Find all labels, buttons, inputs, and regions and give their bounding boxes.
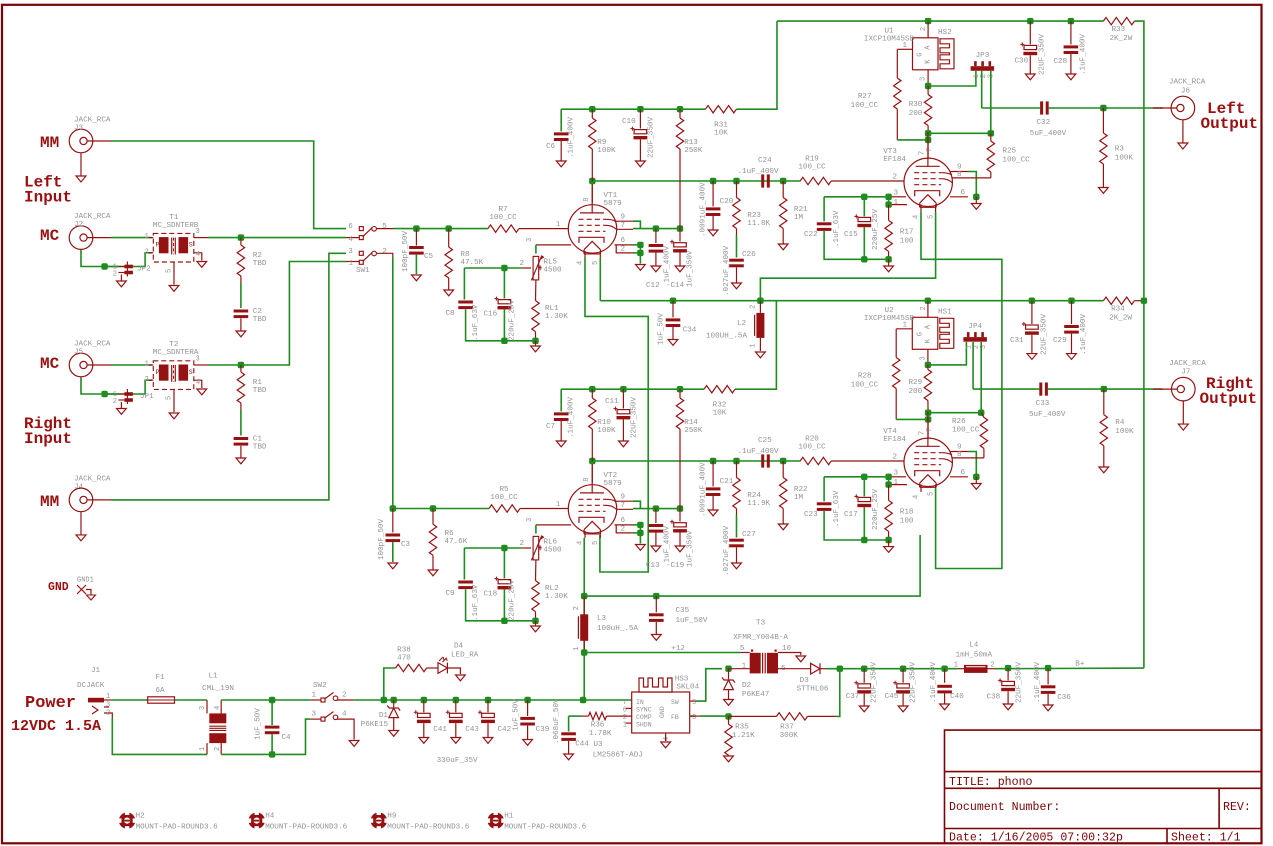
svg-text:5: 5 xyxy=(166,269,174,273)
capacitor C29 xyxy=(1064,325,1079,328)
C13 lead xyxy=(655,509,657,523)
U3 gnd lead xyxy=(665,733,667,741)
svg-text:5: 5 xyxy=(166,396,174,400)
junction C30 top xyxy=(1027,18,1033,24)
svg-text:R31: R31 xyxy=(714,122,728,130)
wire plate node row 2 xyxy=(592,460,800,462)
svg-text:R26: R26 xyxy=(952,418,966,426)
tube VT2 xyxy=(568,485,616,533)
svg-text:7: 7 xyxy=(919,431,927,436)
resistor R5 xyxy=(489,505,520,512)
ground below C13 xyxy=(655,533,657,546)
svg-text:MOUNT-PAD-ROUND3.6: MOUNT-PAD-ROUND3.6 xyxy=(387,824,469,832)
C42 lead xyxy=(487,700,489,712)
wire JP3-2 down xyxy=(981,71,983,108)
wire B+ row xyxy=(995,667,1144,670)
RL2 top lead xyxy=(535,560,537,581)
ground below C14 xyxy=(679,252,681,266)
svg-text:C42: C42 xyxy=(498,726,512,734)
ground T1 pin5 xyxy=(169,286,179,292)
capacitor C27 xyxy=(729,539,744,542)
svg-text:R5: R5 xyxy=(499,486,509,494)
svg-text:R4: R4 xyxy=(1115,419,1125,427)
resistor R2 xyxy=(237,245,244,276)
junction cluster bottom xyxy=(501,338,507,344)
D3 out lead xyxy=(820,668,826,670)
junction R4 top xyxy=(1101,386,1107,392)
svg-text:.1uF_400V: .1uF_400V xyxy=(1079,34,1087,75)
resistor R1 xyxy=(237,372,244,403)
R18 bottom lead xyxy=(888,531,890,540)
connector J3 xyxy=(69,129,93,153)
U1 pin3 lead xyxy=(927,70,929,86)
svg-text:.1uF_400V: .1uF_400V xyxy=(568,397,576,438)
resistor R36 xyxy=(589,712,607,719)
svg-text:R33: R33 xyxy=(1112,26,1126,34)
junction C14 top xyxy=(677,225,683,231)
svg-text:C6: C6 xyxy=(546,143,556,151)
junction R25 top xyxy=(988,130,994,136)
svg-text:EF184: EF184 xyxy=(883,156,906,164)
svg-text:R17: R17 xyxy=(900,229,914,237)
wire L3 bottom to rail xyxy=(583,653,585,701)
svg-text:22UF_350V: 22UF_350V xyxy=(648,117,656,158)
SW1 pin2 lead xyxy=(377,253,393,258)
svg-text:.1uF_400V: .1uF_400V xyxy=(1034,662,1042,703)
svg-text:HS2: HS2 xyxy=(938,29,952,37)
wire C18 leg xyxy=(503,548,505,579)
capacitor C44 xyxy=(561,732,576,735)
junction C15 top xyxy=(861,194,867,200)
capacitor C21 xyxy=(706,487,721,490)
svg-text:100K: 100K xyxy=(597,147,616,155)
wire pin9 to pin7 row 2 xyxy=(633,501,640,508)
svg-text:1.21K: 1.21K xyxy=(732,732,755,740)
svg-text:1: 1 xyxy=(145,360,149,368)
capacitor C36 xyxy=(1041,685,1056,688)
svg-text:10K: 10K xyxy=(713,410,727,418)
wire C7 leg xyxy=(560,389,562,411)
svg-text:2K_2W: 2K_2W xyxy=(1109,315,1132,323)
R6 lead xyxy=(432,509,434,525)
ground below R6 xyxy=(432,555,434,570)
regulator U3 xyxy=(632,692,690,733)
wire MM-right to SW1 pin3 xyxy=(111,253,346,500)
title block xyxy=(945,730,1262,844)
svg-text:C36: C36 xyxy=(1057,694,1071,702)
svg-text:Sheet: 1/1: Sheet: 1/1 xyxy=(1171,832,1241,845)
svg-text:F1: F1 xyxy=(155,674,165,682)
svg-text:9: 9 xyxy=(621,494,626,502)
svg-text:1.78K: 1.78K xyxy=(589,730,612,738)
svg-text:J2: J2 xyxy=(74,221,84,229)
junction C36 xyxy=(1045,665,1051,671)
svg-text:100: 100 xyxy=(900,238,914,246)
svg-text:7: 7 xyxy=(621,222,626,230)
R10 bottom lead xyxy=(591,429,593,461)
wire VT3 pin4 heater to VT4 pin5 xyxy=(921,212,1002,569)
wire T1 out to SW1 pin4 xyxy=(208,237,346,239)
svg-text:JACK_RCA: JACK_RCA xyxy=(74,475,111,483)
wire to C44 xyxy=(568,716,570,731)
svg-text:2: 2 xyxy=(145,376,149,384)
svg-text:H9: H9 xyxy=(387,813,397,821)
resistor R25 xyxy=(987,141,994,172)
ground below D2 xyxy=(728,690,730,700)
svg-text:22UF_350V: 22UF_350V xyxy=(910,662,918,703)
wire B+ rail VT2 xyxy=(561,388,704,390)
svg-text:MM: MM xyxy=(40,493,59,511)
svg-text:GND: GND xyxy=(48,581,69,594)
resistor R34 xyxy=(1103,297,1134,304)
tube VT3 xyxy=(904,158,952,206)
ground below C40 xyxy=(944,693,946,704)
ground below C42 xyxy=(487,723,489,737)
wire C18 bottom xyxy=(503,590,505,621)
svg-text:250K: 250K xyxy=(684,147,703,155)
ground below C34 xyxy=(672,327,674,340)
svg-text:C33: C33 xyxy=(1036,400,1050,408)
C3 gnd lead xyxy=(392,542,394,562)
wire VT1 pin4 heater chain to VT2 pin5 xyxy=(585,258,648,572)
svg-text:C35: C35 xyxy=(676,607,690,615)
T1 pin leads xyxy=(149,237,154,239)
ground below VT4 cluster xyxy=(888,540,890,547)
ground below C26 xyxy=(736,267,738,283)
svg-text:3: 3 xyxy=(311,711,316,719)
svg-text:C11: C11 xyxy=(605,398,619,406)
capacitor C5 xyxy=(409,246,424,249)
tube VT4 xyxy=(904,438,952,486)
wire JP2 node to T1 pin2 xyxy=(105,253,152,267)
wire left leg down to C8 xyxy=(463,268,465,300)
zener D2 xyxy=(722,677,735,682)
ground below C6 xyxy=(560,141,562,161)
C20 lead xyxy=(712,181,714,206)
junction C3 top xyxy=(390,505,396,511)
VT1 pin3 wire xyxy=(536,244,571,246)
svg-text:R38: R38 xyxy=(397,647,411,655)
svg-text:2: 2 xyxy=(113,271,117,279)
wire VT2 pin4 down to L3 xyxy=(583,538,585,653)
wire cluster2 bottom rail xyxy=(466,589,536,621)
U3 FB lead xyxy=(690,715,700,717)
svg-text:1uF_50V: 1uF_50V xyxy=(254,708,262,740)
wire JP3-3 down xyxy=(990,71,992,133)
C14 lead xyxy=(679,229,681,242)
R17 bottom lead xyxy=(888,251,890,259)
svg-text:.1uF_63V: .1uF_63V xyxy=(472,584,480,621)
svg-text:+12: +12 xyxy=(671,645,685,653)
wire VT3 pin5 heater to L2 node xyxy=(760,212,935,301)
switch pole SW1 pole A xyxy=(359,227,363,231)
junction U2 pin2 xyxy=(925,298,931,304)
svg-text:P6KE47: P6KE47 xyxy=(742,691,769,699)
wire J5 to T2 pin1 xyxy=(111,364,152,366)
svg-text:2: 2 xyxy=(519,540,524,548)
svg-text:RL5: RL5 xyxy=(543,258,557,266)
svg-text:2: 2 xyxy=(519,260,524,268)
wire T2 out to SW1 pin1 xyxy=(208,262,346,366)
svg-text:3: 3 xyxy=(919,356,927,360)
wire U2-3 to JP4 pin1 xyxy=(928,342,967,365)
junction C12 top xyxy=(653,225,659,231)
svg-text:Input: Input xyxy=(24,189,72,207)
junction pin1 xyxy=(885,201,891,207)
trimmer RL5 xyxy=(533,256,539,280)
R21 lead xyxy=(782,181,784,198)
capacitor C32 xyxy=(1040,101,1043,114)
svg-text:C30: C30 xyxy=(1015,58,1029,66)
svg-text:5879: 5879 xyxy=(604,480,623,488)
VT1 pin9 lead xyxy=(615,220,634,222)
resistor R37 xyxy=(777,713,808,720)
junction R35 top xyxy=(725,713,731,719)
ground below R8 xyxy=(448,278,450,290)
capacitor C2 xyxy=(234,310,249,313)
U2 pin1 lead xyxy=(896,328,912,330)
junction C5 top xyxy=(413,225,419,231)
svg-text:5uF_400V: 5uF_400V xyxy=(1030,130,1067,138)
svg-text:4: 4 xyxy=(348,236,353,244)
svg-text:B+: B+ xyxy=(1075,661,1085,669)
svg-text:22UF_350V: 22UF_350V xyxy=(631,397,639,438)
wire C4 bottom leg xyxy=(271,734,273,754)
svg-text:2: 2 xyxy=(920,306,928,310)
ground VT4 pin6 xyxy=(975,477,977,484)
wire pin1 link 2 xyxy=(889,477,890,485)
D1 lead xyxy=(393,700,395,707)
svg-text:4500: 4500 xyxy=(543,546,562,554)
svg-text:T2: T2 xyxy=(169,341,179,349)
resistor R17 xyxy=(885,220,892,251)
ground below C31 xyxy=(1031,335,1033,354)
svg-text:5: 5 xyxy=(927,492,935,496)
ground below C36 xyxy=(1047,694,1049,705)
fuse F1 xyxy=(148,697,175,703)
junction C38 xyxy=(1005,665,1011,671)
RL5 wiper lead xyxy=(523,267,531,269)
svg-text:2: 2 xyxy=(106,710,110,718)
svg-text:100_CC: 100_CC xyxy=(798,164,826,172)
svg-text:2: 2 xyxy=(892,174,897,182)
wire pin9 down to pin6 xyxy=(968,172,976,197)
capacitor C20 xyxy=(706,207,721,210)
ground below R21 xyxy=(782,229,784,245)
D2 lead xyxy=(728,669,730,679)
VT3 pin1 lead xyxy=(890,204,907,206)
svg-text:P: P xyxy=(156,241,160,248)
resistor R19 xyxy=(800,177,831,184)
svg-text:C21: C21 xyxy=(720,478,734,486)
resistor R9 xyxy=(589,118,596,149)
C34 lead xyxy=(672,301,674,318)
C5 lead xyxy=(415,229,417,246)
wire heater row to VT4 pin4 xyxy=(584,535,920,596)
svg-text:1: 1 xyxy=(311,692,316,700)
junction U1 pin2 xyxy=(925,18,931,24)
svg-text:STTHL06: STTHL06 xyxy=(797,686,829,694)
svg-text:2: 2 xyxy=(382,248,387,256)
svg-text:R25: R25 xyxy=(1002,148,1016,156)
svg-text:4: 4 xyxy=(214,706,222,710)
svg-text:T3: T3 xyxy=(756,620,766,628)
zener D1 xyxy=(387,705,400,710)
wire +12 to T3 xyxy=(584,652,741,654)
inductor L4 xyxy=(964,665,988,673)
junction R9 top xyxy=(589,106,595,112)
svg-text:C31: C31 xyxy=(1010,337,1024,345)
R14 bottom lead xyxy=(679,429,681,509)
svg-text:300K: 300K xyxy=(780,732,799,740)
svg-text:7: 7 xyxy=(926,148,934,152)
junction C39 top xyxy=(524,697,530,703)
svg-text:1uF_50V: 1uF_50V xyxy=(676,617,708,625)
svg-text:3: 3 xyxy=(196,228,200,236)
ground below JP2 xyxy=(120,275,122,282)
transformer T3 xyxy=(750,653,761,674)
svg-text:R37: R37 xyxy=(780,724,794,732)
R4 top lead xyxy=(1103,389,1105,415)
svg-text:1.30K: 1.30K xyxy=(545,593,568,601)
R20 to VT4 lead xyxy=(831,460,904,462)
svg-text:100: 100 xyxy=(900,518,914,526)
wire pins 6-2 to gnd xyxy=(639,245,641,264)
VT3 pin6 lead xyxy=(950,196,968,198)
resistor R30 xyxy=(924,95,931,126)
svg-text:C44: C44 xyxy=(575,741,589,749)
svg-text:L4: L4 xyxy=(969,642,979,650)
capacitor C37 xyxy=(858,684,871,688)
T2 pin leads xyxy=(149,364,154,366)
junction R3 top xyxy=(1100,105,1106,111)
svg-text:C45: C45 xyxy=(885,693,899,701)
svg-text:.1uF_400V: .1uF_400V xyxy=(737,168,778,176)
svg-text:3: 3 xyxy=(526,518,534,522)
junction plate node A xyxy=(925,130,931,136)
svg-text:C9: C9 xyxy=(446,590,456,598)
wire pin9 to pin7 row xyxy=(633,221,640,228)
ground below C28 xyxy=(1070,54,1072,74)
svg-text:.0091uF_400V: .0091uF_400V xyxy=(700,182,708,237)
resistor R6 xyxy=(429,524,436,555)
svg-text:5: 5 xyxy=(927,215,935,219)
resistor R29 xyxy=(924,370,931,401)
svg-text:11.8K: 11.8K xyxy=(747,220,770,228)
wire pin9 down to pin6 2 xyxy=(968,452,976,477)
svg-text:R22: R22 xyxy=(794,486,808,494)
R26 bottom lead xyxy=(983,448,985,458)
wire SW1-2 down to VT2 grid row xyxy=(392,258,394,509)
junction R18 top xyxy=(885,474,891,480)
capacitor C23 xyxy=(817,502,832,505)
supply GND1 xyxy=(77,585,91,595)
ground below C11 xyxy=(622,419,624,441)
svg-text:J6: J6 xyxy=(1181,88,1191,96)
svg-text:4: 4 xyxy=(913,215,921,219)
ground below C43 xyxy=(455,723,457,737)
svg-text:MC: MC xyxy=(40,227,60,245)
junction RL1 bottom xyxy=(532,338,538,344)
wire C6 leg xyxy=(560,109,562,131)
R8 lead xyxy=(448,229,450,247)
svg-text:C15: C15 xyxy=(844,231,858,239)
svg-text:P: P xyxy=(156,369,160,376)
svg-text:C39: C39 xyxy=(536,726,550,734)
svg-text:.027uF_400V: .027uF_400V xyxy=(723,245,731,296)
capacitor C45 xyxy=(897,684,910,688)
svg-text:J7: J7 xyxy=(1181,369,1190,377)
svg-text:HS3: HS3 xyxy=(675,676,689,684)
C31 lead xyxy=(1031,301,1033,324)
current source U1 xyxy=(913,38,939,70)
svg-text:1mH_50mA: 1mH_50mA xyxy=(956,652,993,660)
svg-text:.1uF_400V: .1uF_400V xyxy=(664,246,672,287)
svg-text:C7: C7 xyxy=(546,423,555,431)
C30 lead xyxy=(1029,21,1031,44)
svg-text:.1uF_400V: .1uF_400V xyxy=(1080,314,1088,355)
svg-text:SHDN: SHDN xyxy=(636,722,652,729)
svg-text:C8: C8 xyxy=(446,310,456,318)
VT3 pin7 lead xyxy=(927,140,929,158)
junction C15 bottom xyxy=(861,256,867,262)
junction R1 top xyxy=(238,362,244,368)
C43 lead xyxy=(455,700,457,712)
svg-text:4: 4 xyxy=(196,379,200,387)
junction J2/JP2 xyxy=(101,263,107,269)
svg-text:JP3: JP3 xyxy=(976,52,990,60)
svg-text:5: 5 xyxy=(382,223,387,231)
svg-text:220uF_25V: 220uF_25V xyxy=(872,489,880,530)
wire plate node row xyxy=(592,180,800,182)
wire pin2 stub xyxy=(633,252,640,254)
svg-text:C43: C43 xyxy=(465,726,479,734)
junction C31 top xyxy=(1029,298,1035,304)
svg-text:7: 7 xyxy=(926,428,934,432)
svg-text:4: 4 xyxy=(342,711,347,719)
junction U2 pin3 xyxy=(925,362,931,368)
ground T1 sec xyxy=(197,262,207,268)
resistor R23 xyxy=(733,198,740,229)
svg-text:CML_19N: CML_19N xyxy=(202,685,234,693)
resistor R21 xyxy=(780,198,787,229)
svg-text:R30: R30 xyxy=(909,101,923,109)
svg-text:DCJACK: DCJACK xyxy=(77,682,105,690)
capacitor C19 xyxy=(674,523,687,527)
svg-text:100K: 100K xyxy=(597,427,616,435)
capacitor C35 xyxy=(649,613,664,616)
wire J1 to F1 xyxy=(112,699,148,701)
wire U1-3 to JP3 pin1 xyxy=(928,71,976,86)
tube VT1 xyxy=(568,205,616,253)
wire top rail xyxy=(777,20,1103,22)
junction C21 top xyxy=(710,458,716,464)
svg-text:1: 1 xyxy=(556,501,560,509)
wire C22 leg xyxy=(823,197,825,222)
R13 bottom lead xyxy=(679,149,681,229)
svg-text:R7: R7 xyxy=(498,206,507,214)
svg-text:R23: R23 xyxy=(747,212,761,220)
R2 lead xyxy=(240,238,242,245)
svg-text:LED_RA: LED_RA xyxy=(451,652,479,660)
svg-text:EF184: EF184 xyxy=(883,436,906,444)
wire C15 leg xyxy=(863,197,865,217)
svg-text:MC_SDNTERB: MC_SDNTERB xyxy=(153,222,199,230)
svg-text:2: 2 xyxy=(113,398,117,406)
svg-text:R3: R3 xyxy=(1115,146,1125,154)
junction L3 bottom rail xyxy=(580,697,586,703)
svg-text:2: 2 xyxy=(573,606,581,610)
